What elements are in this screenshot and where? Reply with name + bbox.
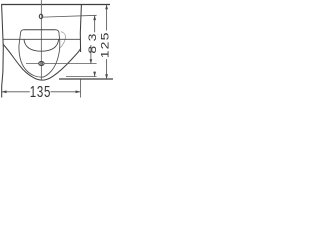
ceiling line: [1, 4, 110, 6]
outer dome arc: [3, 45, 80, 81]
dim stub Q: [90, 45, 92, 63]
glass dome left wall: [19, 30, 42, 77]
arrow 135 right: [76, 90, 81, 93]
inner bottom extension line: [66, 76, 97, 78]
arrow 125 down: [105, 74, 108, 79]
dim line 135 right: [51, 91, 81, 93]
body left edge: [2, 5, 4, 98]
seam line: [3, 38, 80, 40]
dim line 125 upper: [106, 5, 108, 31]
centerline: [40, 0, 42, 80]
svg-text:135: 135: [30, 82, 51, 100]
glass bulge arc: [60, 32, 65, 48]
dim line 83 upper: [94, 15, 96, 32]
right extension line: [80, 79, 82, 98]
arrow 135 left: [2, 90, 7, 93]
finial slot lines: [40, 62, 42, 66]
glass dome right wall with bulge: [42, 30, 60, 77]
finial ellipse: [39, 62, 44, 66]
svg-text:83: 83: [86, 29, 98, 54]
arrow 83 down: [93, 72, 96, 77]
arrow 125 up: [105, 5, 108, 10]
bulb half-ellipse: [24, 39, 59, 51]
finial leader line: [26, 63, 97, 65]
dim line 135 left: [2, 91, 30, 93]
outer bottom extension line: [59, 78, 113, 80]
arrow 83 up: [93, 15, 96, 20]
top screw ellipse: [39, 14, 42, 18]
dim line 125 lower: [106, 59, 108, 79]
body right edge slanted: [80, 5, 81, 52]
svg-text:125: 125: [99, 31, 111, 58]
arrow Q down: [90, 59, 93, 63]
screw extension line: [43, 15, 97, 17]
glass dome top edge: [23, 29, 56, 31]
dim line 83 lower: [94, 72, 96, 77]
